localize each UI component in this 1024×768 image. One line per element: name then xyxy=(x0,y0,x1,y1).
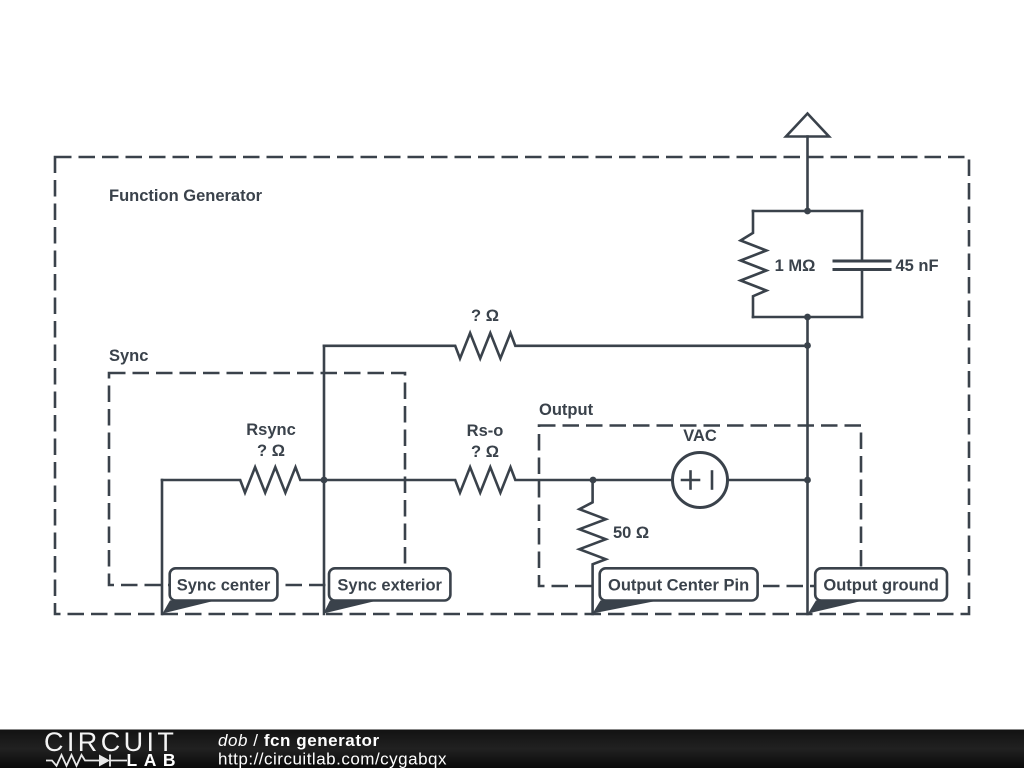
svg-text:Sync center: Sync center xyxy=(177,576,271,594)
svg-text:dob / fcn generator: dob / fcn generator xyxy=(218,731,380,750)
svg-text:Output ground: Output ground xyxy=(823,576,938,594)
svg-text:1 MΩ: 1 MΩ xyxy=(775,257,816,275)
svg-text:? Ω: ? Ω xyxy=(471,443,499,461)
svg-text:? Ω: ? Ω xyxy=(257,442,285,460)
svg-text:VAC: VAC xyxy=(683,427,717,445)
svg-text:Rsync: Rsync xyxy=(246,421,296,439)
svg-text:50 Ω: 50 Ω xyxy=(613,524,649,542)
svg-text:45 nF: 45 nF xyxy=(895,257,938,275)
svg-text:Function Generator: Function Generator xyxy=(109,187,263,205)
svg-text:Sync exterior: Sync exterior xyxy=(337,576,442,594)
svg-text:Rs-o: Rs-o xyxy=(467,422,504,440)
svg-text:Output Center Pin: Output Center Pin xyxy=(608,576,749,594)
svg-text:LAB: LAB xyxy=(127,750,182,768)
svg-text:Sync: Sync xyxy=(109,347,148,365)
svg-text:http://circuitlab.com/cygabqx: http://circuitlab.com/cygabqx xyxy=(218,750,447,768)
svg-text:? Ω: ? Ω xyxy=(471,307,499,325)
svg-text:Output: Output xyxy=(539,401,594,419)
